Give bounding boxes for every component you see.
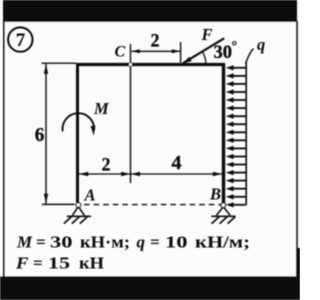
svg-text:7: 7 bbox=[16, 30, 26, 51]
bottom black band bbox=[0, 277, 300, 300]
support B pin bbox=[221, 203, 226, 208]
q leader line bbox=[246, 49, 254, 64]
moment M arc bbox=[63, 113, 95, 131]
svg-text:q: q bbox=[257, 35, 265, 54]
svg-text:15: 15 bbox=[48, 254, 70, 273]
node C white dot bbox=[129, 63, 133, 67]
svg-text:M: M bbox=[16, 233, 33, 252]
support A triangle bbox=[72, 207, 84, 216]
svg-text:=: = bbox=[150, 233, 160, 252]
svg-text:A: A bbox=[84, 186, 96, 205]
svg-text:кН/м;: кН/м; bbox=[195, 233, 250, 252]
svg-text:=: = bbox=[36, 233, 46, 252]
dashed line between supports bbox=[84, 204, 221, 206]
dimension 6 vertical line bbox=[45, 64, 47, 204]
node C extension line bbox=[130, 44, 132, 183]
top dimension line 2 bbox=[132, 50, 181, 52]
left border line bbox=[3, 21, 5, 277]
svg-text:4: 4 bbox=[171, 152, 181, 174]
force F arrowhead bbox=[182, 57, 191, 64]
dimension 6 top extension line bbox=[42, 62, 77, 64]
tick at F application extension bbox=[180, 42, 182, 63]
svg-text:кН: кН bbox=[79, 254, 104, 273]
support A hatching bbox=[64, 217, 72, 224]
svg-text:C: C bbox=[115, 44, 126, 61]
distributed load arrows bbox=[232, 67, 247, 69]
svg-text:=: = bbox=[33, 254, 43, 273]
svg-text:M: M bbox=[93, 99, 110, 118]
frame top chord bbox=[76, 63, 225, 66]
right border line bbox=[296, 21, 298, 277]
frame right member bbox=[222, 63, 225, 203]
moment M arrowhead bbox=[91, 126, 96, 136]
force F line bbox=[183, 38, 224, 63]
support B triangle bbox=[216, 207, 230, 216]
given data text line 1 bbox=[16, 233, 250, 252]
svg-text:F: F bbox=[201, 25, 213, 44]
bottom dimension line bbox=[79, 173, 222, 175]
svg-text:30: 30 bbox=[50, 233, 73, 252]
angle arc 30deg bbox=[203, 52, 206, 63]
svg-text:F: F bbox=[15, 254, 29, 273]
frame left member bbox=[76, 63, 79, 203]
svg-text:2: 2 bbox=[151, 31, 160, 52]
support B hatching bbox=[212, 217, 220, 224]
given data text line 2 bbox=[15, 254, 104, 273]
support A ground line bbox=[67, 215, 91, 217]
svg-text:6: 6 bbox=[35, 124, 45, 146]
svg-text:q: q bbox=[137, 233, 146, 252]
svg-text:2: 2 bbox=[102, 155, 111, 176]
distributed load q boundary line bbox=[245, 63, 247, 205]
svg-text:30: 30 bbox=[214, 43, 233, 63]
dimension 6 bottom extension line bbox=[42, 203, 75, 205]
svg-text:B: B bbox=[209, 185, 221, 204]
support A pin bbox=[76, 203, 81, 208]
svg-text:10: 10 bbox=[165, 233, 188, 252]
problem number circle 7 bbox=[8, 27, 32, 51]
svg-text:кН·м;: кН·м; bbox=[80, 233, 130, 252]
top black band bbox=[3, 0, 297, 22]
support B ground line bbox=[211, 215, 235, 217]
